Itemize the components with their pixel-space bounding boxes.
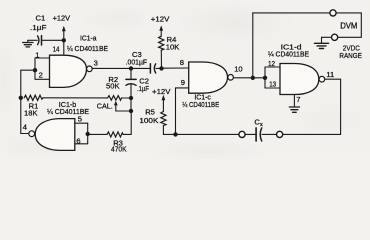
wire C3 to R4 node: [156, 67, 162, 69]
node R1 left: [19, 96, 23, 100]
svg-text:+12V: +12V: [53, 14, 71, 23]
resistor R3 470K: [107, 132, 123, 137]
node pins 12-13 tie: [263, 76, 267, 80]
pin 7 stem: [293, 95, 295, 107]
capacitor C1: [38, 36, 42, 45]
wire R3 to C2 column: [123, 133, 131, 135]
node pins 1-2 tie: [33, 68, 37, 72]
wire tie to left column: [21, 69, 35, 71]
node wiper/column: [129, 109, 133, 113]
svg-text:.1µF: .1µF: [30, 23, 47, 32]
wire R2 right to node: [122, 97, 131, 99]
resistor R1 18K: [24, 95, 43, 100]
svg-text:2: 2: [39, 70, 43, 79]
wire pin 11 to right column: [325, 79, 341, 134]
svg-text:14: 14: [53, 44, 60, 53]
svg-text:¼ CD4011BE: ¼ CD4011BE: [47, 107, 89, 116]
ground (pin 7): [289, 107, 299, 112]
svg-text:9: 9: [181, 78, 185, 87]
node DVM feedback: [251, 76, 255, 80]
svg-text:3: 3: [94, 59, 98, 68]
wire input bracket IC1-a: [34, 58, 36, 79]
pin 1 stub: [35, 57, 50, 59]
wire to pin 4 bubble: [21, 133, 29, 135]
pin 6 stub: [75, 143, 88, 145]
node R4/pin8: [159, 66, 163, 70]
IC1-a output bubble: [87, 66, 93, 72]
wire tie to R3: [88, 133, 107, 135]
svg-text:¼ CD4011BE: ¼ CD4011BE: [182, 100, 219, 109]
wire ground to C1: [28, 39, 38, 41]
wire rail pin9 to Cx terminal: [176, 133, 239, 135]
svg-text:8: 8: [180, 58, 184, 67]
svg-text:.001µF: .001µF: [126, 57, 148, 66]
svg-text:1: 1: [35, 50, 39, 59]
terminal (DVM +): [330, 10, 336, 16]
wire feedback column up: [252, 13, 254, 78]
IC1-c output bubble: [228, 75, 234, 81]
svg-text:IC1-a: IC1-a: [80, 33, 97, 42]
wire column 98 to 111: [130, 98, 132, 111]
+12V supply arrow (IC1-a pin 14): [62, 26, 66, 41]
wire top row to DVM: [253, 12, 330, 14]
+12V supply arrow (R4): [159, 25, 163, 36]
wire DVM loop: [336, 13, 361, 37]
node pin3/C2 column: [129, 66, 133, 70]
NAND gate IC1-d: [280, 64, 319, 95]
terminal (Cx left): [239, 131, 245, 137]
svg-text:470K: 470K: [111, 145, 127, 154]
NAND gate IC1-b (mirrored): [35, 119, 75, 151]
wire terminal to pin11 column: [283, 133, 341, 135]
R2 wiper arrow: [114, 101, 118, 111]
pin 12 stub: [265, 66, 280, 68]
node R2/C2: [129, 96, 133, 100]
wire R5 bottom to rail: [163, 126, 175, 135]
wire input bracket IC1-b: [87, 123, 89, 144]
pin 13 stub: [265, 87, 280, 89]
wire Cx to terminal: [262, 133, 276, 135]
wire C2 stem bottom: [130, 84, 132, 98]
resistor R2 50K (CAL trimmer): [108, 96, 122, 101]
svg-text:¼ CD4011BE: ¼ CD4011BE: [268, 50, 309, 59]
wire column 111 to rail: [130, 111, 132, 134]
svg-text:+12V: +12V: [151, 15, 170, 24]
capacitor C2: [126, 79, 136, 85]
wire DVM- to ground: [322, 36, 332, 38]
wire pin9 column: [175, 88, 177, 134]
wire wiper to column: [116, 110, 131, 112]
svg-text:10: 10: [234, 64, 242, 73]
svg-text:RANGE: RANGE: [339, 51, 362, 60]
wire pin10 row: [233, 77, 265, 79]
wire pin14 stem: [63, 40, 65, 55]
capacitor Cx: [256, 128, 262, 141]
wire R4 bottom: [160, 50, 162, 68]
svg-text:.1µF: .1µF: [137, 84, 149, 93]
resistor R5 100K: [161, 112, 166, 126]
+12V supply arrow (R5): [162, 95, 166, 112]
node junction C1/+12V/pin14: [62, 38, 66, 42]
svg-text:CAL.: CAL.: [97, 102, 113, 111]
svg-text:+12V: +12V: [152, 87, 171, 96]
svg-text:50K: 50K: [106, 82, 120, 91]
svg-text:7: 7: [296, 95, 300, 104]
svg-text:6: 6: [76, 136, 80, 145]
pin 5 stub: [75, 122, 88, 124]
node pin9/rail: [173, 132, 177, 136]
svg-text:DVM: DVM: [340, 21, 357, 30]
svg-text:11: 11: [326, 70, 334, 79]
wire pin3 row: [92, 67, 150, 69]
svg-text:¼ CD4011BE: ¼ CD4011BE: [67, 44, 108, 53]
pin 2 stub: [35, 78, 50, 80]
svg-text:C1: C1: [36, 14, 46, 23]
wire terminal to Cx: [245, 133, 255, 135]
resistor R4 10K: [159, 36, 164, 50]
svg-text:12: 12: [268, 59, 275, 68]
terminal (DVM -): [332, 34, 338, 40]
svg-text:5: 5: [78, 115, 82, 124]
capacitor C3 .001uF: [150, 64, 155, 73]
wire node to pin 8: [162, 67, 189, 69]
IC1-d output bubble pin 11: [319, 76, 325, 82]
terminal (Cx right): [277, 131, 283, 137]
svg-text:18K: 18K: [24, 109, 38, 118]
node pins 5-6 tie: [86, 132, 90, 136]
IC1-b output bubble pin 4: [29, 131, 35, 137]
svg-text:100K: 100K: [139, 116, 158, 125]
pin 9 stub: [176, 87, 189, 89]
wire C2 stem top: [130, 68, 132, 79]
wire left column down: [20, 70, 22, 133]
svg-text:10K: 10K: [166, 43, 180, 52]
svg-text:4: 4: [23, 123, 27, 132]
ground (C1 / pin-14 decoupling): [23, 40, 33, 47]
ground (DVM): [314, 37, 328, 48]
NAND gate IC1-c: [189, 62, 228, 93]
NAND gate IC1-a: [50, 55, 87, 87]
wire R1 to R2: [43, 97, 108, 99]
wire input bracket IC1-d: [264, 67, 266, 88]
svg-text:13: 13: [269, 80, 276, 89]
wire C1 to +12V/pin14 junction: [42, 39, 64, 41]
